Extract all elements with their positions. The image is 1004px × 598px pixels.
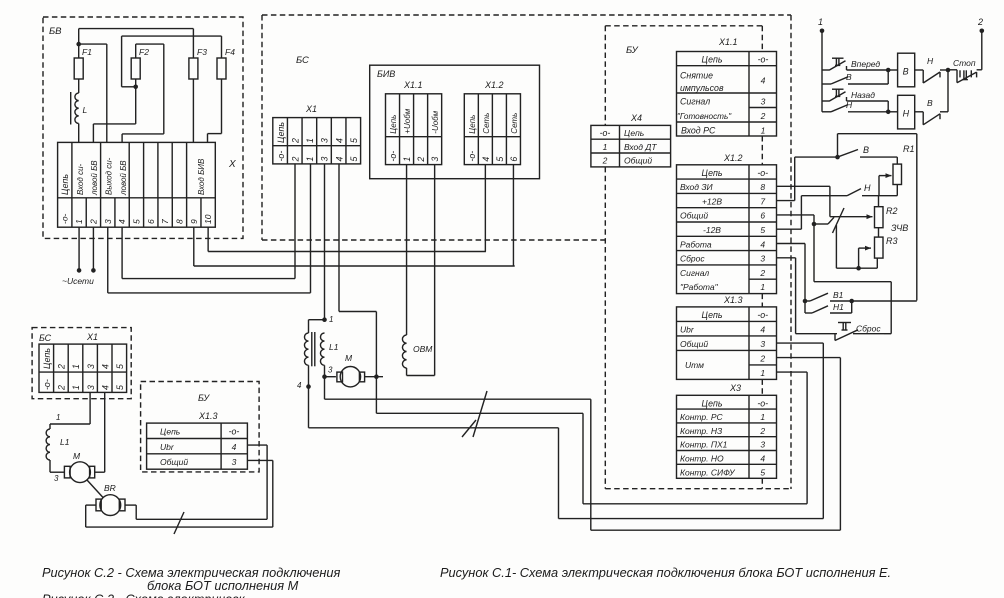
- svg-text:1: 1: [760, 368, 765, 378]
- svg-text:X: X: [228, 159, 236, 170]
- svg-text:Н: Н: [864, 183, 871, 193]
- svg-text:БС: БС: [39, 333, 52, 343]
- svg-text:1: 1: [760, 412, 765, 422]
- svg-text:4: 4: [760, 325, 765, 335]
- svg-text:X1.2: X1.2: [723, 153, 743, 163]
- svg-text:Цепь: Цепь: [702, 310, 723, 320]
- svg-text:BR: BR: [104, 483, 116, 493]
- svg-text:X1.3: X1.3: [198, 411, 218, 421]
- svg-text:Цепь: Цепь: [702, 55, 723, 65]
- svg-text:F2: F2: [139, 47, 149, 57]
- svg-text:3: 3: [320, 138, 330, 143]
- svg-text:Ubr: Ubr: [680, 325, 695, 335]
- svg-text:X1: X1: [305, 104, 317, 114]
- svg-text:Н: Н: [903, 109, 910, 119]
- svg-text:-о-: -о-: [276, 151, 286, 162]
- svg-text:6: 6: [760, 211, 765, 221]
- svg-text:-Uобм: -Uобм: [431, 110, 440, 133]
- svg-text:3: 3: [430, 157, 440, 162]
- svg-text:7: 7: [760, 196, 765, 206]
- svg-text:БУ: БУ: [198, 393, 210, 403]
- svg-text:-о-: -о-: [60, 213, 70, 224]
- svg-text:R3: R3: [886, 236, 898, 246]
- svg-text:импульсов: импульсов: [680, 83, 724, 93]
- svg-text:ЗЧВ: ЗЧВ: [891, 223, 908, 233]
- svg-text:4: 4: [297, 381, 302, 390]
- svg-text:Рисунок С.3 - Схема электричес: Рисунок С.3 - Схема электрическ: [42, 592, 246, 598]
- svg-text:Цепь: Цепь: [276, 122, 286, 143]
- svg-text:2: 2: [759, 426, 765, 436]
- svg-text:X1.2: X1.2: [484, 80, 504, 90]
- svg-text:1: 1: [329, 315, 333, 324]
- svg-text:1: 1: [818, 17, 823, 27]
- svg-text:Сигнал: Сигнал: [680, 268, 709, 278]
- svg-text:L1: L1: [329, 342, 339, 352]
- svg-text:X1.1: X1.1: [403, 80, 423, 90]
- svg-text:1: 1: [305, 157, 315, 162]
- svg-text:"Готовность": "Готовность": [677, 112, 732, 121]
- svg-text:В: В: [927, 98, 933, 108]
- svg-text:L1: L1: [60, 437, 70, 447]
- svg-text:-о-: -о-: [757, 310, 768, 320]
- svg-text:ловой БВ: ловой БВ: [90, 160, 99, 196]
- svg-text:3: 3: [320, 157, 330, 162]
- svg-text:Вход си-: Вход си-: [76, 163, 85, 195]
- svg-text:-12В: -12В: [703, 225, 721, 235]
- svg-text:Сигнал: Сигнал: [680, 97, 710, 107]
- svg-text:Вперед: Вперед: [851, 59, 880, 69]
- svg-text:Цепь: Цепь: [60, 174, 70, 195]
- svg-text:Общий: Общий: [680, 339, 708, 349]
- svg-text:Сеть: Сеть: [482, 113, 491, 134]
- svg-text:4: 4: [100, 385, 110, 390]
- svg-text:2: 2: [759, 268, 765, 278]
- svg-text:6: 6: [509, 157, 519, 162]
- svg-text:Работа: Работа: [680, 239, 712, 249]
- svg-text:+Uобм: +Uобм: [403, 108, 412, 133]
- svg-text:3: 3: [760, 254, 765, 264]
- svg-text:3: 3: [761, 97, 766, 107]
- svg-text:1: 1: [56, 413, 60, 422]
- svg-text:4: 4: [117, 219, 127, 224]
- svg-text:3: 3: [86, 364, 96, 369]
- svg-text:М: М: [345, 353, 353, 363]
- svg-text:X1: X1: [86, 332, 98, 342]
- svg-text:2: 2: [57, 385, 67, 391]
- svg-text:Н1: Н1: [833, 302, 844, 312]
- svg-text:В: В: [863, 145, 869, 155]
- svg-text:Сеть: Сеть: [510, 113, 519, 134]
- svg-text:-о-: -о-: [42, 379, 52, 390]
- svg-text:Ubr: Ubr: [160, 442, 175, 452]
- svg-text:Цепь: Цепь: [42, 348, 52, 369]
- svg-text:4: 4: [334, 157, 344, 162]
- svg-text:4: 4: [232, 442, 237, 452]
- svg-text:"Работа": "Работа": [680, 282, 719, 292]
- svg-text:Стоп: Стоп: [953, 58, 976, 68]
- svg-text:Выход си-: Выход си-: [105, 157, 114, 195]
- svg-text:3: 3: [760, 339, 765, 349]
- svg-text:5: 5: [131, 219, 141, 224]
- svg-text:Цепь: Цепь: [468, 115, 477, 134]
- svg-text:Контр. ПХ1: Контр. ПХ1: [680, 440, 728, 450]
- svg-text:7: 7: [160, 219, 170, 224]
- svg-text:В: В: [903, 67, 909, 77]
- svg-text:4: 4: [100, 364, 110, 369]
- svg-text:4: 4: [760, 454, 765, 464]
- svg-text:Вход БИВ: Вход БИВ: [197, 158, 206, 195]
- svg-text:9: 9: [189, 219, 199, 224]
- svg-text:2: 2: [290, 157, 300, 163]
- svg-text:Контр. СИФУ: Контр. СИФУ: [680, 467, 736, 477]
- svg-text:2: 2: [602, 156, 608, 166]
- svg-text:5: 5: [115, 364, 125, 369]
- svg-text:2: 2: [88, 219, 98, 225]
- svg-text:X3: X3: [729, 383, 741, 393]
- svg-text:2: 2: [760, 111, 766, 121]
- svg-text:4: 4: [481, 157, 491, 162]
- svg-text:Рисунок С.1- Схема электрическ: Рисунок С.1- Схема электрическая подключ…: [440, 565, 891, 580]
- svg-text:4: 4: [761, 76, 766, 86]
- svg-text:В1: В1: [833, 290, 844, 300]
- svg-text:Общий: Общий: [680, 211, 708, 221]
- svg-text:В: В: [846, 72, 852, 82]
- svg-text:ОВМ: ОВМ: [413, 344, 433, 354]
- svg-text:3: 3: [54, 474, 59, 483]
- svg-text:БС: БС: [296, 55, 309, 66]
- svg-text:Вход ДТ: Вход ДТ: [624, 142, 657, 152]
- svg-text:2: 2: [977, 17, 983, 27]
- svg-text:Назад: Назад: [851, 90, 875, 100]
- svg-text:2: 2: [57, 364, 67, 370]
- svg-text:5: 5: [760, 225, 765, 235]
- svg-text:R1: R1: [903, 144, 915, 154]
- svg-text:3: 3: [103, 219, 113, 224]
- svg-text:2: 2: [290, 138, 300, 144]
- svg-text:4: 4: [334, 138, 344, 143]
- svg-text:Общий: Общий: [160, 457, 188, 467]
- svg-text:Uтм: Uтм: [685, 360, 704, 370]
- svg-text:-о-: -о-: [757, 168, 768, 178]
- svg-text:~Uсети: ~Uсети: [62, 276, 94, 286]
- svg-text:L: L: [83, 105, 88, 115]
- svg-text:1: 1: [760, 282, 765, 292]
- svg-text:1: 1: [603, 142, 608, 152]
- svg-text:10: 10: [203, 214, 213, 224]
- svg-text:1: 1: [402, 157, 412, 162]
- svg-text:5: 5: [349, 157, 359, 162]
- svg-text:8: 8: [174, 219, 184, 224]
- svg-text:6: 6: [146, 219, 156, 224]
- svg-text:1: 1: [71, 364, 81, 369]
- svg-text:Цепь: Цепь: [624, 128, 644, 138]
- svg-text:Цепь: Цепь: [389, 115, 398, 134]
- svg-text:3: 3: [86, 385, 96, 390]
- svg-text:8: 8: [760, 182, 765, 192]
- svg-text:БУ: БУ: [626, 45, 639, 56]
- svg-text:Цепь: Цепь: [702, 168, 723, 178]
- svg-text:Контр. НЗ: Контр. НЗ: [680, 426, 723, 436]
- svg-text:-о-: -о-: [600, 128, 611, 138]
- svg-text:Общий: Общий: [624, 156, 652, 166]
- svg-text:Контр. РС: Контр. РС: [680, 412, 724, 422]
- svg-text:1: 1: [71, 385, 81, 390]
- svg-text:5: 5: [495, 157, 505, 162]
- svg-text:5: 5: [115, 385, 125, 390]
- svg-text:Контр. НО: Контр. НО: [680, 454, 724, 464]
- svg-text:М: М: [73, 451, 81, 461]
- svg-text:-о-: -о-: [388, 151, 398, 162]
- svg-text:1: 1: [761, 125, 766, 135]
- svg-text:-о-: -о-: [467, 151, 477, 162]
- svg-text:Снятие: Снятие: [680, 71, 713, 81]
- svg-text:Н: Н: [927, 56, 934, 66]
- svg-text:1: 1: [74, 219, 84, 224]
- svg-text:F4: F4: [225, 47, 235, 57]
- svg-text:Сброс: Сброс: [680, 254, 705, 264]
- svg-text:F1: F1: [82, 47, 92, 57]
- svg-text:1: 1: [305, 138, 315, 143]
- svg-text:БИВ: БИВ: [377, 69, 395, 79]
- svg-text:3: 3: [232, 457, 237, 467]
- svg-text:2: 2: [759, 354, 765, 364]
- svg-text:Цепь: Цепь: [702, 398, 723, 408]
- svg-text:3: 3: [760, 440, 765, 450]
- svg-text:Цепь: Цепь: [160, 427, 180, 437]
- svg-text:Н: Н: [846, 100, 853, 110]
- svg-text:F3: F3: [197, 47, 207, 57]
- svg-text:БВ: БВ: [49, 26, 62, 37]
- svg-text:X4: X4: [630, 113, 642, 123]
- svg-text:3: 3: [328, 366, 333, 375]
- svg-text:X1.3: X1.3: [723, 295, 743, 305]
- svg-text:Вход ЗИ: Вход ЗИ: [680, 182, 714, 192]
- svg-text:Сброс: Сброс: [856, 324, 881, 334]
- svg-text:-о-: -о-: [757, 398, 768, 408]
- svg-text:ловой БВ: ловой БВ: [119, 160, 128, 196]
- svg-text:X1.1: X1.1: [718, 37, 738, 47]
- svg-text:5: 5: [760, 467, 765, 477]
- svg-text:+12В: +12В: [702, 196, 722, 206]
- svg-text:-о-: -о-: [229, 427, 240, 437]
- svg-text:2: 2: [416, 157, 426, 163]
- svg-text:4: 4: [760, 239, 765, 249]
- svg-text:-о-: -о-: [758, 55, 769, 65]
- svg-text:Вход РС: Вход РС: [681, 125, 716, 135]
- svg-text:5: 5: [349, 138, 359, 143]
- svg-text:R2: R2: [886, 206, 898, 216]
